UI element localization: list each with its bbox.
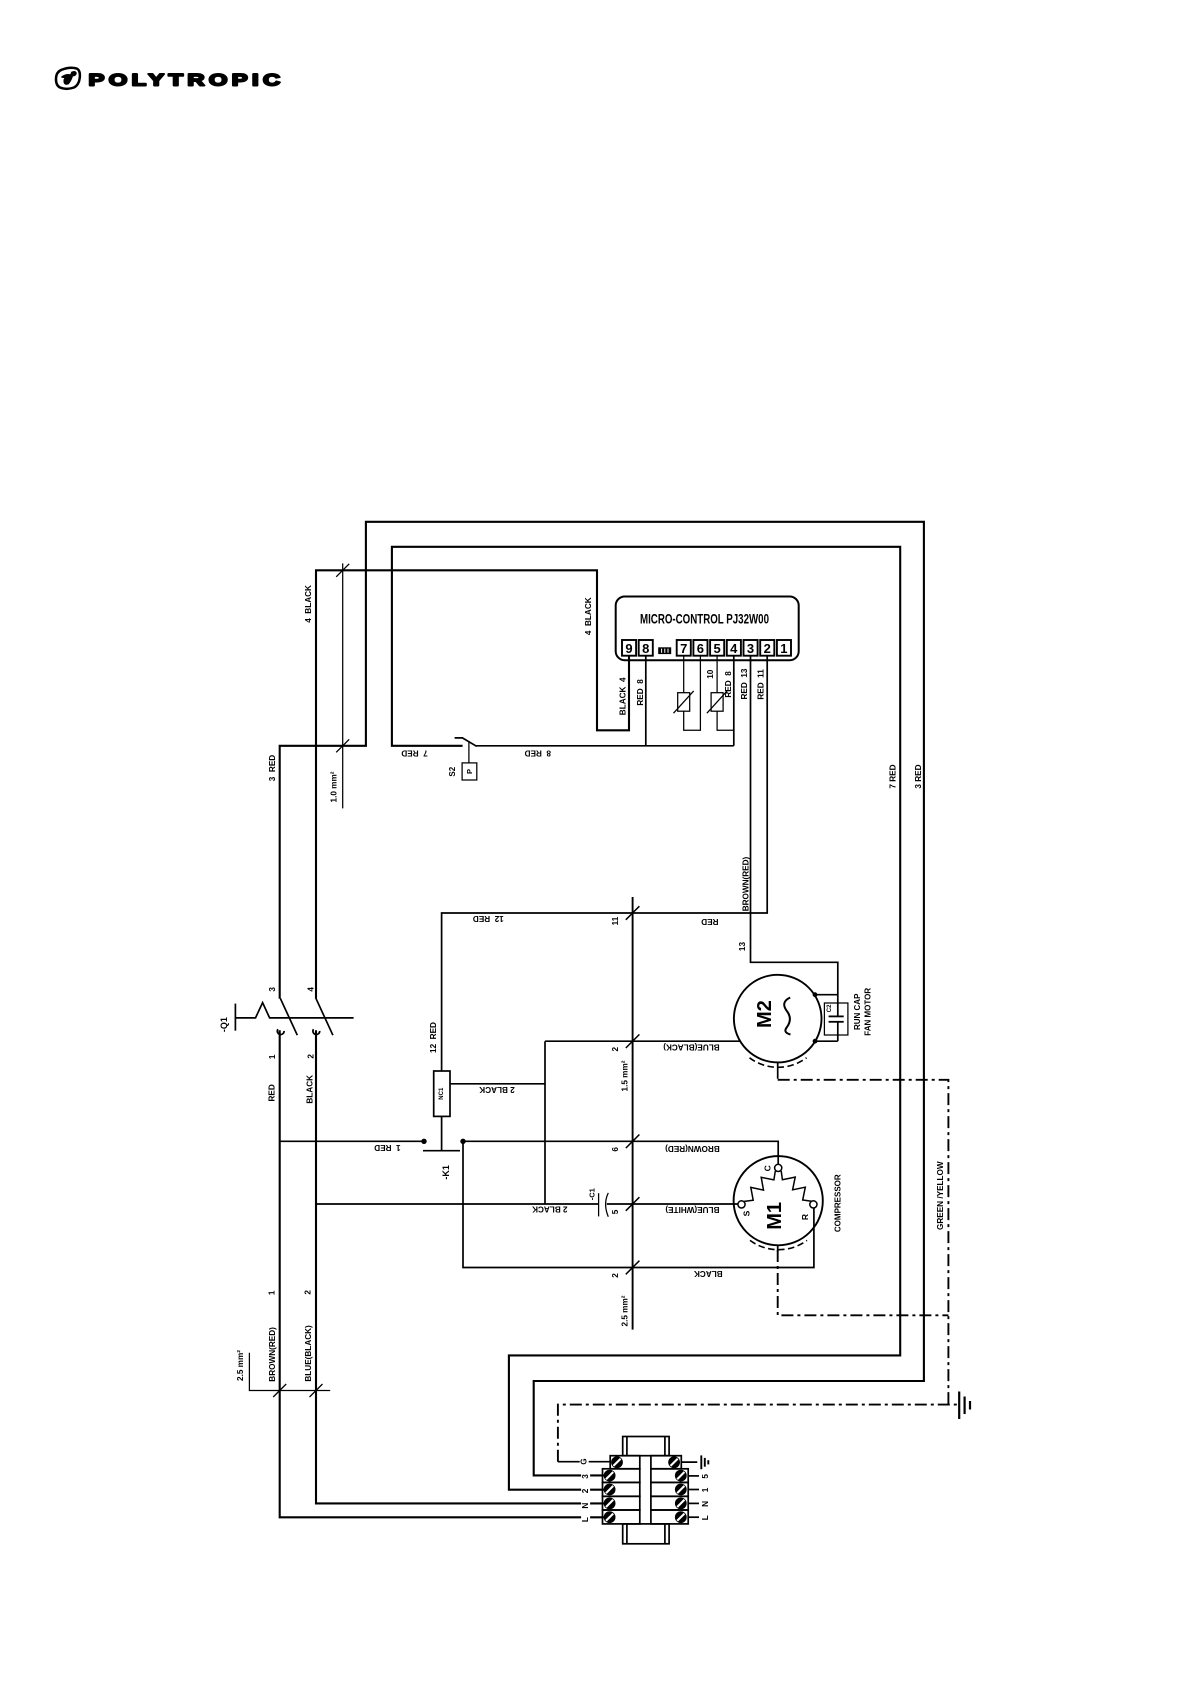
wire 6 BROWN(RED) (K1 contact to M1 terminal C): [463, 1141, 778, 1164]
wire 5 BLUE(WHITE) (C1 to M1 terminal S): [607, 1203, 738, 1205]
svg-text:4: 4: [307, 987, 316, 992]
svg-text:11: 11: [611, 916, 620, 925]
1.0 mm2 bracket: [329, 563, 349, 808]
X1 right stub L: [688, 1516, 699, 1518]
MC pin 5: [710, 640, 724, 656]
svg-text:C2: C2: [827, 1004, 833, 1012]
wire 13 BROWN(RED) (MC terminal 3 to run capacitor C2): [751, 656, 838, 1017]
svg-text:3 RED: 3 RED: [914, 764, 923, 788]
2.5 mm2 bracket: [236, 1350, 330, 1397]
X1 screw G right: [668, 1456, 680, 1468]
svg-text:C: C: [763, 1165, 773, 1171]
X1 top tab: [623, 1437, 669, 1456]
svg-text:FAN MOTOR: FAN MOTOR: [864, 988, 873, 1036]
node wire vertical x545: [544, 1041, 546, 1204]
X1 left cell L: [603, 1510, 640, 1524]
svg-text:2: 2: [307, 1054, 316, 1059]
wire 2 BLACK (NC1 to node): [450, 1083, 545, 1085]
svg-text:1: 1: [268, 1290, 277, 1295]
svg-text:1 RED: 1 RED: [374, 1143, 400, 1152]
svg-text:N: N: [701, 1501, 710, 1507]
svg-text:BROWN(RED): BROWN(RED): [742, 856, 751, 911]
svg-text:BLACK 4: BLACK 4: [619, 677, 628, 715]
controller U1 MICRO-CONTROL PJ32W00: [616, 597, 799, 661]
label X1 L left: [581, 1514, 590, 1526]
svg-text:N: N: [581, 1503, 590, 1509]
svg-text:1: 1: [780, 641, 787, 656]
svg-text:S: S: [741, 1210, 751, 1216]
MC pin 3: [744, 640, 758, 656]
X1 screw 5 right: [675, 1470, 687, 1482]
earth dash-dot bottom run to ground: [558, 1405, 958, 1462]
svg-text:7 RED: 7 RED: [401, 748, 427, 757]
M1 frame dashed arc: [750, 1240, 807, 1249]
label RUN CAP FAN MOTOR: [853, 988, 873, 1036]
label X1 N left: [581, 1500, 590, 1512]
M1 terminal C: [775, 1164, 782, 1171]
X1 left cell N: [603, 1496, 640, 1510]
svg-text:POLYTROPIC: POLYTROPIC: [89, 72, 285, 90]
wire 12 RED / 11 RED (NC1 coil to MC terminal 2): [442, 656, 768, 1071]
tick wire 5 on trunk: [626, 1197, 640, 1211]
X1 screw L right: [675, 1511, 687, 1523]
svg-text:12 RED: 12 RED: [473, 914, 504, 923]
svg-text:7: 7: [680, 641, 687, 656]
MC pin 9: [622, 640, 636, 656]
svg-text:2 BLACK: 2 BLACK: [532, 1204, 568, 1213]
node M2 upper terminal: [813, 992, 818, 997]
svg-text:12 RED: 12 RED: [429, 1022, 438, 1053]
svg-text:1.0 mm²: 1.0 mm²: [329, 771, 338, 802]
wire to terminal G: [558, 1461, 611, 1463]
svg-text:3: 3: [268, 987, 277, 992]
wire 2 BLACK / BLUE(BLACK) (breaker pole2 bottom to terminal N): [316, 1030, 606, 1503]
svg-text:BLACK: BLACK: [694, 1269, 723, 1278]
svg-text:BLUE(WHITE): BLUE(WHITE): [665, 1205, 719, 1214]
svg-text:3: 3: [581, 1474, 590, 1479]
svg-text:R: R: [800, 1214, 810, 1220]
wire MC terminal 5 to thermistor R2: [716, 656, 718, 693]
svg-text:9: 9: [625, 641, 632, 656]
capacitor C1: [587, 1188, 608, 1217]
M1 winding S-C: [744, 1171, 775, 1201]
svg-text:2.5 mm²: 2.5 mm²: [620, 1295, 629, 1326]
label X1 2 left: [581, 1485, 590, 1497]
svg-text:5: 5: [701, 1474, 710, 1479]
ground symbol (main earth): [959, 1392, 970, 1420]
X1 right cell G: [651, 1456, 681, 1469]
M1 winding C-R: [781, 1171, 811, 1201]
svg-text:2: 2: [581, 1488, 590, 1493]
earth dash-dot from M1 frame: [778, 1250, 949, 1315]
wire M2 upper terminal link: [814, 994, 838, 996]
MC pin 7: [677, 640, 691, 656]
X1 screw 1 right: [675, 1484, 687, 1496]
wire drop MC terminal 8: [645, 656, 647, 746]
svg-text:-C1: -C1: [587, 1188, 596, 1200]
wire 1 RED / BROWN(RED) (breaker pole1 bottom to terminal L): [280, 1030, 606, 1517]
M1 terminal S: [738, 1201, 745, 1208]
svg-text:BLUE(BLACK): BLUE(BLACK): [304, 1325, 313, 1382]
Q1 pole 1 contact: [277, 1029, 284, 1034]
MC pin 1: [777, 640, 791, 656]
svg-text:8: 8: [642, 641, 649, 656]
X1 screw 3 left: [604, 1470, 616, 1482]
svg-text:2: 2: [611, 1273, 620, 1278]
X1 right stub G to ground: [681, 1461, 697, 1463]
svg-text:4 BLACK: 4 BLACK: [584, 597, 593, 635]
ground symbol (terminal G): [701, 1455, 708, 1469]
Q1 pole 2 blade: [316, 998, 333, 1035]
svg-text:2 BLACK: 2 BLACK: [479, 1085, 515, 1094]
pressure switch S2: [448, 738, 477, 780]
wire 4 BLACK (breaker pole2 top to MC terminal 9): [316, 570, 629, 998]
wire C2 bottom: [837, 1022, 839, 1041]
wire 8 RED (S2 right to MC terminal 4): [476, 745, 734, 747]
M1 terminal R: [810, 1201, 817, 1208]
fan motor M2: [734, 975, 822, 1068]
X1 bottom tab: [623, 1524, 669, 1544]
node M2 lower terminal: [813, 1039, 818, 1044]
svg-text:1: 1: [701, 1487, 710, 1492]
svg-text:4 BLACK: 4 BLACK: [304, 585, 313, 623]
X1 screw 2 left: [604, 1484, 616, 1496]
label X1 G left: [580, 1456, 589, 1468]
X1 left cell 2: [603, 1482, 640, 1496]
M2 frame dashed arc: [750, 1058, 807, 1068]
X1 right stub N: [688, 1502, 699, 1504]
svg-text:MICRO-CONTROL PJ32W00: MICRO-CONTROL PJ32W00: [640, 612, 769, 627]
X1 right cell L: [651, 1510, 688, 1524]
wire drop MC terminal 4: [733, 656, 735, 746]
svg-text:L: L: [701, 1515, 710, 1520]
MC pin 8: [639, 640, 653, 656]
X1 screw N right: [675, 1498, 687, 1510]
tick wire 2 on trunk: [626, 1261, 640, 1275]
X1 screw G left: [611, 1456, 623, 1468]
wire 2 BLUE(BLACK) to fan motor M2: [545, 1040, 740, 1042]
Q1 pole 2 contact: [313, 1029, 320, 1034]
tick wire 11 on trunk: [626, 906, 640, 920]
terminal block X1: [603, 1437, 689, 1544]
svg-text:RED: RED: [268, 1084, 277, 1101]
svg-text:RED 8: RED 8: [636, 679, 645, 706]
wire 2 BLACK branch to capacitor C1: [316, 1203, 598, 1205]
svg-text:3: 3: [747, 641, 754, 656]
svg-text:RED: RED: [701, 917, 718, 926]
svg-text:BLACK: BLACK: [305, 1075, 314, 1104]
wire M2 lower terminal link: [814, 1040, 838, 1042]
svg-text:BROWN(RED): BROWN(RED): [665, 1144, 720, 1153]
cable trunk line: [632, 897, 634, 1330]
X1 left cell 3: [603, 1469, 640, 1483]
X1 right cell N: [651, 1496, 688, 1510]
svg-text:NC1: NC1: [439, 1087, 445, 1100]
X1 right cell 1: [651, 1482, 688, 1496]
svg-text:BLUE(BLACK): BLUE(BLACK): [663, 1042, 720, 1051]
wire MC terminal 7 to thermistor R1: [683, 656, 685, 693]
svg-text:-Q1: -Q1: [219, 1017, 229, 1032]
MC pin 2: [760, 640, 774, 656]
svg-text:2: 2: [764, 641, 771, 656]
label X1 3 left: [581, 1470, 590, 1482]
svg-text:M1: M1: [764, 1202, 786, 1230]
svg-text:RUN CAP: RUN CAP: [853, 993, 862, 1030]
svg-text:2: 2: [611, 1046, 620, 1051]
X1 left cell G: [610, 1456, 640, 1469]
wire M2 frame lead: [777, 1062, 779, 1078]
svg-text:COMPRESSOR: COMPRESSOR: [833, 1174, 842, 1232]
svg-text:GREEN /YELLOW: GREEN /YELLOW: [936, 1161, 945, 1230]
svg-text:P: P: [465, 769, 474, 774]
svg-text:6: 6: [611, 1147, 620, 1152]
svg-text:S2: S2: [448, 766, 457, 776]
X1 screw N left: [604, 1498, 616, 1510]
Q1 pole 1 blade: [280, 998, 297, 1035]
relay coil NC1: [434, 1071, 450, 1116]
X1 right stub 1: [688, 1489, 699, 1491]
thermistor R1: [674, 691, 694, 713]
svg-text:4: 4: [730, 641, 738, 656]
svg-text:2: 2: [304, 1290, 313, 1295]
svg-text:5: 5: [611, 1209, 620, 1214]
svg-text:M2: M2: [754, 1000, 776, 1028]
relay contact K1: [421, 1116, 465, 1179]
svg-text:1.5 mm²: 1.5 mm²: [620, 1060, 629, 1091]
tick wire 2 on trunk: [626, 1034, 640, 1048]
svg-text:10: 10: [706, 669, 715, 679]
svg-text:G: G: [580, 1458, 589, 1464]
svg-text:1: 1: [268, 1054, 277, 1059]
earth dash-dot from M2 frame: [778, 1080, 949, 1405]
wire M1 frame lead: [777, 1245, 779, 1252]
wire thermistor R1 to MC terminal 6: [684, 656, 701, 731]
svg-text:RED 11: RED 11: [757, 669, 766, 700]
svg-text:BROWN(RED): BROWN(RED): [268, 1327, 277, 1382]
MC pin 4: [727, 640, 741, 656]
MC small connector: [658, 647, 671, 654]
svg-text:2.5 mm²: 2.5 mm²: [236, 1350, 245, 1381]
svg-text:13: 13: [738, 942, 747, 952]
wire 7 RED loop (S2 left to terminal 2 row): [392, 547, 900, 1490]
tick wire 6 on trunk: [626, 1135, 640, 1149]
svg-text:L: L: [581, 1517, 590, 1522]
X1 right stub 5: [688, 1475, 699, 1477]
compressor M1: [734, 1156, 823, 1250]
svg-text:6: 6: [697, 641, 704, 656]
POLYTROPIC logo mark: [56, 68, 80, 89]
svg-text:5: 5: [713, 641, 720, 656]
X1 right cell 5: [651, 1469, 688, 1483]
wire 1 RED branch to K1 contact: [280, 1140, 424, 1142]
thermistor R2: [707, 691, 727, 713]
X1 screw L left: [604, 1511, 616, 1523]
svg-text:RED 13: RED 13: [740, 668, 749, 699]
svg-text:3 RED: 3 RED: [268, 755, 277, 781]
run capacitor C2: [824, 1003, 848, 1035]
svg-text:7 RED: 7 RED: [889, 764, 898, 788]
wire 2 BLACK (K1 contact to M1 terminal R): [463, 1141, 814, 1267]
wire thermistor R2 to MC terminal 4: [717, 711, 734, 730]
wire 3 RED outer loop (breaker pole1 top to terminal 3): [280, 522, 924, 1476]
circuit breaker Q1: [219, 987, 354, 1104]
svg-text:-K1: -K1: [441, 1165, 451, 1180]
svg-text:8 RED: 8 RED: [525, 748, 551, 757]
MC pin 6: [693, 640, 707, 656]
